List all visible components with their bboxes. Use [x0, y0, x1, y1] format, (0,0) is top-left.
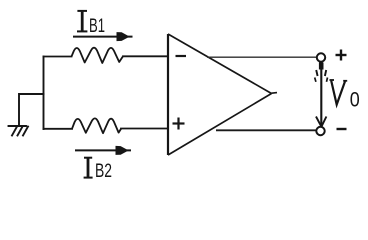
label + (output polarity): [336, 50, 347, 61]
current arrow IB2: [75, 146, 131, 154]
wire left bus: [43, 57, 45, 130]
wire ground to node: [19, 94, 44, 125]
svg-text:B2: B2: [95, 161, 112, 182]
wire top resistor to op-amp inverting input: [123, 55, 168, 57]
op-amp triangle: [168, 34, 277, 155]
svg-text:B1: B1: [89, 16, 105, 37]
label Vo: [330, 80, 348, 105]
wire to top resistor: [44, 56, 72, 58]
current arrow IB1: [73, 33, 133, 41]
wire bottom resistor to op-amp non-inverting input: [121, 128, 168, 130]
output + terminal: [317, 53, 325, 61]
Vo arrow (down): [315, 63, 328, 127]
output - terminal: [316, 127, 324, 135]
wire op-amp to output + terminal: [207, 56, 316, 58]
resistor (bottom, non-inverting input): [72, 118, 121, 133]
op-amp plus sign: [173, 118, 185, 130]
ground: [9, 126, 29, 136]
wire op-amp to output - terminal: [216, 129, 316, 131]
svg-text:0: 0: [350, 89, 360, 112]
label IB1: [77, 11, 87, 32]
wire to bottom resistor: [44, 128, 73, 130]
label - (output polarity): [337, 128, 347, 130]
resistor (top, inverting input): [72, 48, 124, 63]
op-amp minus sign: [176, 55, 187, 57]
label IB2: [84, 158, 93, 178]
